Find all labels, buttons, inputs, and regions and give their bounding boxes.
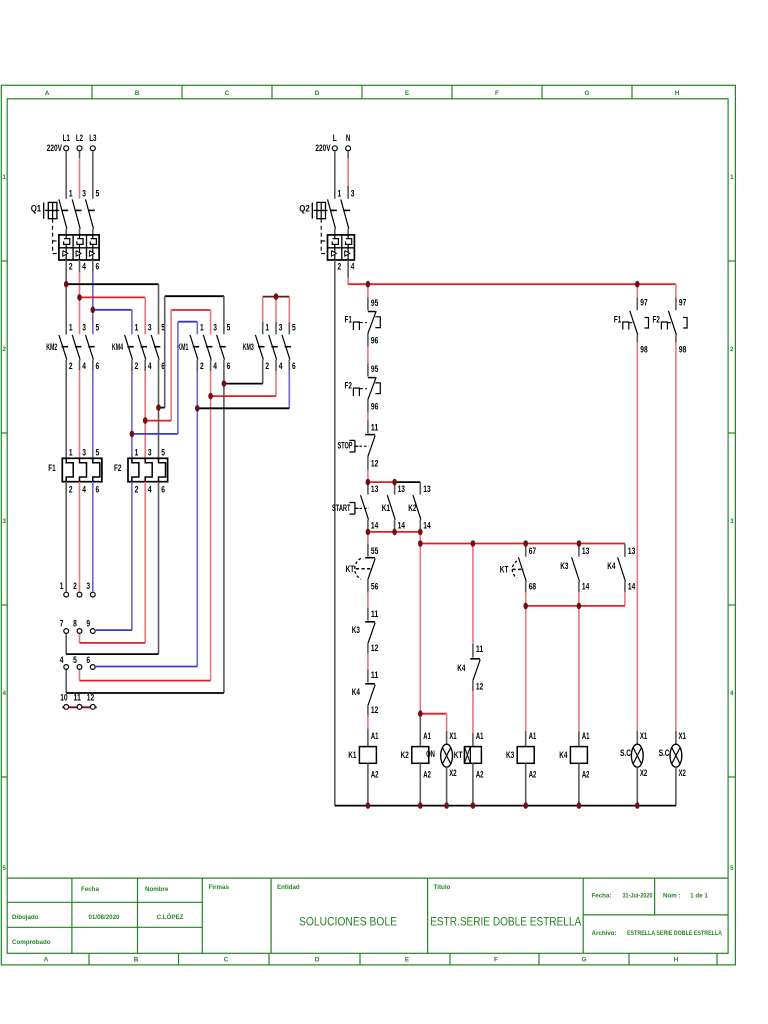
svg-text:13: 13	[582, 546, 589, 557]
svg-text:6: 6	[227, 361, 231, 372]
svg-text:G: G	[585, 90, 590, 97]
svg-text:Título: Título	[434, 884, 451, 891]
svg-text:K1: K1	[348, 750, 357, 761]
svg-text:56: 56	[371, 581, 378, 592]
svg-text:6: 6	[292, 361, 296, 372]
svg-text:8: 8	[73, 618, 77, 629]
svg-text:A2: A2	[476, 770, 484, 781]
svg-text:2: 2	[135, 361, 139, 372]
svg-text:D: D	[315, 956, 320, 963]
svg-text:2: 2	[73, 581, 77, 592]
svg-text:K4: K4	[457, 663, 466, 674]
svg-text:A1: A1	[529, 731, 537, 742]
svg-text:KM4: KM4	[112, 342, 123, 353]
svg-text:3: 3	[82, 188, 86, 199]
svg-text:4: 4	[82, 361, 86, 372]
svg-text:A2: A2	[371, 770, 379, 781]
svg-text:3: 3	[82, 323, 86, 334]
svg-text:5: 5	[161, 447, 165, 458]
svg-text:A1: A1	[423, 731, 431, 742]
svg-text:F: F	[495, 90, 499, 97]
svg-text:31-Jul-2020: 31-Jul-2020	[623, 893, 653, 900]
svg-text:Entidad: Entidad	[277, 884, 300, 891]
svg-text:11: 11	[371, 422, 379, 433]
svg-text:F2: F2	[114, 463, 121, 474]
svg-text:3: 3	[148, 447, 152, 458]
svg-text:11: 11	[371, 609, 379, 620]
svg-text:4: 4	[148, 484, 152, 495]
svg-text:K1: K1	[382, 503, 391, 514]
svg-text:F1: F1	[614, 315, 622, 326]
svg-text:E: E	[405, 90, 410, 97]
svg-text:X1: X1	[679, 731, 687, 742]
svg-text:98: 98	[679, 344, 686, 355]
svg-text:11: 11	[476, 644, 484, 655]
svg-text:KM3: KM3	[243, 342, 254, 353]
svg-text:2: 2	[69, 484, 73, 495]
svg-text:L: L	[333, 133, 337, 144]
svg-text:B: B	[135, 90, 140, 97]
svg-text:F2: F2	[653, 315, 660, 326]
svg-text:KT: KT	[346, 564, 355, 575]
svg-text:3: 3	[82, 447, 86, 458]
svg-text:3: 3	[2, 518, 6, 525]
svg-text:9: 9	[86, 618, 90, 629]
svg-text:Dibujado: Dibujado	[12, 914, 39, 921]
svg-text:12: 12	[371, 705, 378, 716]
svg-text:S.C: S.C	[659, 748, 670, 759]
svg-text:1: 1	[200, 323, 204, 334]
svg-text:6: 6	[96, 484, 100, 495]
svg-text:Comprobado: Comprobado	[12, 939, 51, 946]
svg-text:11: 11	[74, 693, 82, 704]
svg-text:5: 5	[96, 447, 100, 458]
svg-text:F: F	[494, 956, 498, 963]
svg-text:1 de 1: 1 de 1	[690, 893, 708, 900]
svg-text:1: 1	[265, 323, 269, 334]
svg-text:3: 3	[86, 581, 90, 592]
svg-text:14: 14	[582, 582, 590, 593]
svg-text:4: 4	[60, 655, 64, 666]
svg-text:95: 95	[371, 364, 379, 375]
svg-text:C: C	[224, 956, 229, 963]
svg-text:B: B	[134, 956, 139, 963]
svg-text:13: 13	[628, 546, 635, 557]
svg-text:4: 4	[2, 690, 6, 697]
svg-text:A1: A1	[371, 731, 379, 742]
svg-text:S.C: S.C	[620, 748, 631, 759]
svg-text:K4: K4	[559, 750, 568, 761]
svg-text:97: 97	[679, 297, 686, 308]
svg-text:220V: 220V	[315, 143, 331, 154]
svg-text:6: 6	[96, 261, 100, 272]
svg-text:4: 4	[213, 361, 217, 372]
svg-text:5: 5	[73, 655, 77, 666]
svg-text:4: 4	[148, 361, 152, 372]
svg-text:12: 12	[87, 693, 94, 704]
svg-text:6: 6	[96, 361, 100, 372]
svg-text:X2: X2	[640, 768, 647, 779]
svg-text:A: A	[44, 956, 49, 963]
svg-text:2: 2	[338, 261, 342, 272]
svg-text:1: 1	[135, 447, 139, 458]
svg-text:2: 2	[69, 261, 73, 272]
svg-text:3: 3	[730, 518, 734, 525]
svg-text:E: E	[405, 956, 410, 963]
svg-text:K3: K3	[560, 561, 568, 572]
svg-text:6: 6	[161, 484, 165, 495]
svg-text:3: 3	[279, 323, 283, 334]
svg-text:K3: K3	[352, 625, 360, 636]
svg-text:K4: K4	[352, 687, 361, 698]
svg-text:12: 12	[371, 458, 378, 469]
svg-text:01/08/2020: 01/08/2020	[89, 914, 121, 921]
svg-text:L3: L3	[89, 133, 96, 144]
svg-text:Firmas: Firmas	[209, 884, 230, 891]
svg-text:97: 97	[640, 297, 647, 308]
svg-text:START: START	[332, 503, 351, 514]
svg-text:2: 2	[730, 346, 734, 353]
svg-text:C: C	[225, 90, 230, 97]
svg-text:A2: A2	[582, 770, 590, 781]
svg-text:96: 96	[371, 335, 378, 346]
svg-text:5: 5	[227, 323, 231, 334]
svg-text:98: 98	[640, 344, 647, 355]
svg-text:2: 2	[135, 484, 139, 495]
svg-text:Núm :: Núm :	[663, 893, 681, 900]
svg-text:KM1: KM1	[177, 342, 188, 353]
svg-text:KM2: KM2	[46, 342, 57, 353]
svg-text:ON: ON	[426, 749, 435, 760]
svg-text:G: G	[582, 956, 587, 963]
svg-text:A1: A1	[476, 731, 484, 742]
svg-text:14: 14	[398, 521, 406, 532]
svg-text:13: 13	[423, 484, 430, 495]
svg-text:1: 1	[60, 581, 64, 592]
svg-text:5: 5	[730, 865, 734, 872]
svg-text:1: 1	[69, 188, 73, 199]
svg-text:Q2: Q2	[299, 203, 310, 214]
svg-text:13: 13	[398, 484, 405, 495]
svg-text:11: 11	[371, 670, 379, 681]
svg-text:L2: L2	[76, 133, 83, 144]
svg-text:2: 2	[69, 361, 73, 372]
svg-text:1: 1	[69, 323, 73, 334]
svg-text:3: 3	[351, 188, 355, 199]
svg-text:1: 1	[135, 323, 139, 334]
svg-text:KT: KT	[454, 750, 463, 761]
svg-text:14: 14	[628, 582, 636, 593]
svg-text:Nombre: Nombre	[145, 886, 169, 893]
svg-text:4: 4	[730, 690, 734, 697]
svg-text:D: D	[315, 90, 320, 97]
svg-text:X1: X1	[640, 731, 648, 742]
svg-text:F1: F1	[345, 314, 353, 325]
svg-text:5: 5	[96, 188, 100, 199]
svg-text:X2: X2	[679, 768, 686, 779]
svg-text:4: 4	[82, 261, 86, 272]
svg-text:96: 96	[371, 401, 378, 412]
svg-text:H: H	[675, 90, 680, 97]
svg-text:H: H	[674, 956, 679, 963]
svg-text:Fecha: Fecha	[81, 886, 99, 893]
svg-text:220V: 220V	[47, 143, 63, 154]
svg-text:3: 3	[213, 323, 217, 334]
svg-text:1: 1	[69, 447, 73, 458]
svg-text:KT: KT	[500, 565, 509, 576]
svg-text:4: 4	[351, 261, 355, 272]
svg-text:X2: X2	[449, 768, 456, 779]
svg-text:2: 2	[265, 361, 269, 372]
svg-text:4: 4	[82, 484, 86, 495]
svg-text:A2: A2	[529, 770, 537, 781]
svg-text:4: 4	[279, 361, 283, 372]
svg-text:12: 12	[476, 681, 483, 692]
svg-text:K2: K2	[401, 750, 409, 761]
svg-text:67: 67	[529, 546, 536, 557]
svg-text:14: 14	[423, 521, 431, 532]
svg-text:5: 5	[96, 323, 100, 334]
svg-text:68: 68	[529, 582, 536, 593]
svg-text:7: 7	[60, 618, 64, 629]
svg-text:L1: L1	[63, 133, 71, 144]
svg-text:C.LÓPEZ: C.LÓPEZ	[157, 913, 184, 921]
svg-text:95: 95	[371, 298, 379, 309]
svg-text:ESTR.SERIE DOBLE ESTRELLA: ESTR.SERIE DOBLE ESTRELLA	[430, 915, 582, 929]
svg-text:5: 5	[292, 323, 296, 334]
svg-text:K2: K2	[408, 503, 416, 514]
svg-text:K4: K4	[607, 561, 616, 572]
svg-text:55: 55	[371, 546, 379, 557]
svg-text:2: 2	[200, 361, 204, 372]
svg-text:2: 2	[2, 346, 6, 353]
svg-text:Q1: Q1	[31, 203, 42, 214]
svg-text:STOP: STOP	[338, 441, 353, 452]
svg-text:A2: A2	[423, 770, 431, 781]
svg-text:Archivo:: Archivo:	[592, 930, 617, 937]
svg-text:13: 13	[371, 484, 378, 495]
svg-text:1: 1	[338, 188, 342, 199]
svg-text:14: 14	[371, 521, 379, 532]
svg-text:A1: A1	[582, 731, 590, 742]
svg-text:N: N	[346, 133, 350, 144]
svg-text:3: 3	[148, 323, 152, 334]
svg-text:Fecha:: Fecha:	[592, 893, 612, 900]
svg-text:SOLUCIONES BOLE: SOLUCIONES BOLE	[299, 915, 397, 929]
svg-text:F1: F1	[48, 463, 56, 474]
svg-text:1: 1	[730, 174, 734, 181]
svg-text:5: 5	[2, 865, 6, 872]
svg-text:A: A	[45, 90, 50, 97]
svg-text:12: 12	[371, 643, 378, 654]
svg-text:F2: F2	[345, 381, 352, 392]
svg-text:K3: K3	[506, 750, 514, 761]
svg-text:X1: X1	[449, 731, 457, 742]
svg-text:ESTRELLA SERIE DOBLE ESTRELLA: ESTRELLA SERIE DOBLE ESTRELLA	[627, 930, 722, 937]
svg-text:1: 1	[2, 174, 6, 181]
svg-text:6: 6	[86, 655, 90, 666]
svg-text:10: 10	[60, 693, 67, 704]
